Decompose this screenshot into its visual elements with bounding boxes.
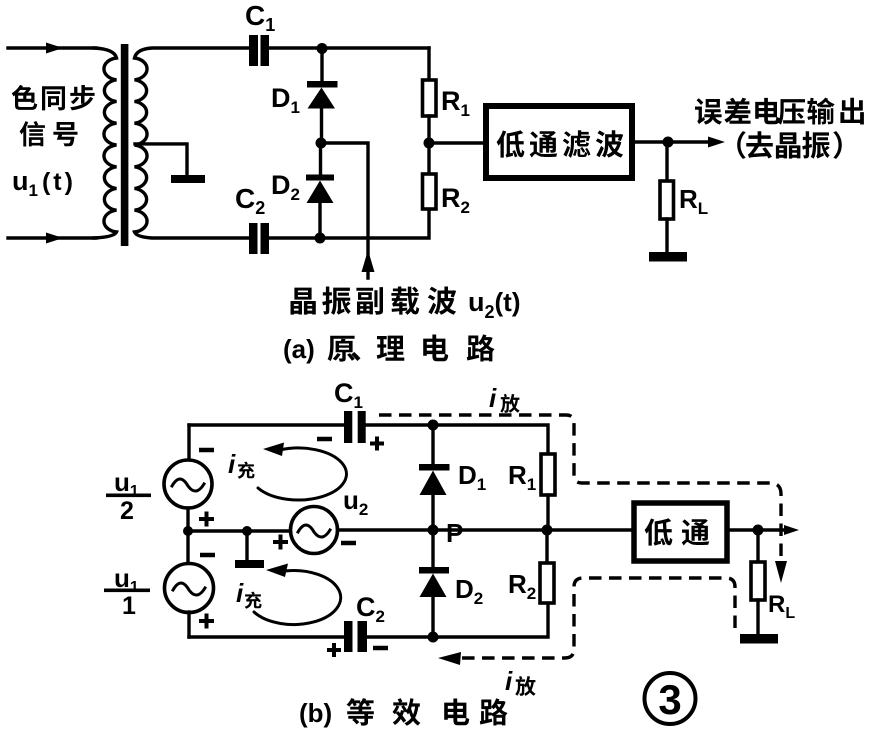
polarity minus top source bbox=[199, 448, 214, 453]
polarity plus u2 left bbox=[273, 535, 288, 550]
diode D1 triangle bbox=[308, 88, 336, 109]
node left mid junction dot bbox=[183, 526, 193, 536]
wire u2 to node P bbox=[338, 528, 434, 531]
wire arrowhead discharge down bbox=[775, 561, 787, 583]
wire dashed discharge path top bbox=[379, 415, 781, 558]
svg-text:i: i bbox=[236, 578, 244, 608]
svg-text:R1: R1 bbox=[508, 460, 536, 494]
wire node B to D2 bbox=[319, 143, 322, 175]
source u1/1 circle bbox=[165, 564, 214, 613]
wire left rail top segment bbox=[187, 425, 190, 460]
svg-text:D1: D1 bbox=[271, 83, 300, 117]
wire R1 to node D bbox=[427, 116, 430, 143]
source u2 sine bbox=[298, 525, 330, 537]
label to crystal bbox=[737, 131, 842, 159]
wire C2b to R2b corner bbox=[367, 603, 548, 637]
svg-text:RL: RL bbox=[679, 184, 708, 218]
diode D1 (b) triangle bbox=[420, 471, 447, 496]
wire lowpass box to output node bbox=[632, 140, 712, 143]
wire input top with arrow bbox=[8, 46, 96, 49]
diode D2 cathode bar bbox=[306, 175, 334, 181]
node output (b) junction dot bbox=[753, 525, 764, 536]
wire box to output node (b) bbox=[727, 528, 786, 531]
transformer T1 secondary winding bbox=[135, 48, 251, 238]
svg-text:C2: C2 bbox=[356, 592, 385, 626]
svg-text:D2: D2 bbox=[455, 574, 483, 608]
capacitor C2 (b) plate right bbox=[358, 621, 368, 652]
wire node B stub to subcarrier injection bbox=[321, 143, 368, 278]
wire arrowhead charge loop bottom bbox=[266, 564, 288, 578]
transformer core bar bbox=[121, 44, 129, 246]
diode D1 cathode bar bbox=[307, 81, 338, 88]
ground center tap bbox=[171, 175, 205, 183]
wire D2 to bottom rail bbox=[318, 203, 321, 238]
resistor RL (b) bbox=[751, 562, 765, 600]
polarity minus C2b right bbox=[373, 646, 388, 651]
wire arrowhead output (a) bbox=[708, 137, 725, 148]
capacitor C1 (b) plate right bbox=[358, 411, 366, 443]
wire center tap bbox=[135, 144, 187, 175]
diode D1 (b) cathode bar bbox=[419, 464, 450, 471]
svg-text:(b): (b) bbox=[299, 698, 332, 728]
svg-text:R2: R2 bbox=[441, 183, 470, 217]
wire D1b to P bbox=[431, 495, 434, 530]
svg-text:u2(t): u2(t) bbox=[468, 287, 521, 322]
svg-text:i: i bbox=[505, 666, 513, 696]
svg-text:D1: D1 bbox=[458, 460, 486, 494]
ground RL (a) bbox=[649, 252, 687, 262]
polarity minus C1b left bbox=[317, 437, 332, 442]
label u1/2 bar bbox=[106, 494, 151, 498]
wire D1 to node B bbox=[320, 108, 323, 143]
wire arrowhead input bottom bbox=[46, 233, 63, 244]
wire C1b to R1b corner bbox=[365, 425, 548, 454]
lowpass box (b) bbox=[634, 503, 727, 561]
capacitor C1 plate right bbox=[261, 35, 270, 66]
node E output junction dot bbox=[663, 137, 674, 148]
svg-text:i: i bbox=[489, 383, 497, 413]
label subcarrier u2(t) bbox=[291, 287, 457, 315]
resistor R1 (b) bbox=[541, 454, 555, 495]
wire D2b to bottom rail bbox=[431, 597, 434, 637]
charge current loop bottom bbox=[254, 571, 341, 625]
svg-text:RL: RL bbox=[768, 591, 795, 622]
wire node D to R2 bbox=[427, 143, 430, 174]
source u1/2 circle bbox=[164, 460, 212, 508]
svg-text:P: P bbox=[446, 518, 463, 548]
label lowpass filter text (a) bbox=[497, 130, 624, 158]
svg-text:3: 3 bbox=[658, 676, 681, 723]
polarity minus bottom source bbox=[200, 553, 215, 558]
wire between source and mid node bbox=[186, 508, 189, 531]
svg-text:u2: u2 bbox=[343, 485, 368, 519]
label lowpass text (b) bbox=[645, 518, 710, 546]
node top of diode branch junction dot bbox=[428, 420, 439, 431]
wire RL to ground bbox=[665, 219, 668, 252]
wire P to R1R2 junction bbox=[433, 528, 541, 531]
wire dashed discharge path bottom bbox=[458, 578, 735, 658]
wire mid node to lower source bbox=[186, 531, 189, 564]
svg-text:i: i bbox=[228, 449, 236, 479]
ground RL (b) bbox=[740, 634, 778, 644]
polarity plus C1b right bbox=[370, 437, 384, 451]
source u2 circle bbox=[291, 507, 338, 554]
resistor R2 bbox=[423, 174, 437, 209]
diode D2 (b) triangle bbox=[420, 574, 447, 598]
svg-text:C1: C1 bbox=[334, 378, 363, 412]
svg-text:1: 1 bbox=[122, 592, 136, 620]
svg-text:(a): (a) bbox=[283, 334, 315, 364]
node bottom of diode branch junction dot bbox=[428, 632, 439, 643]
lowpass filter box (a) bbox=[486, 106, 632, 178]
wire top rail left to C1b bbox=[189, 423, 345, 426]
wire diode branch top bbox=[431, 425, 434, 464]
resistor R1 bbox=[423, 80, 437, 116]
polarity plus C2b left bbox=[327, 643, 341, 657]
wire ground stub bbox=[245, 531, 248, 560]
resistor RL (a) bbox=[660, 181, 674, 219]
wire bottom rail C2 to R2 column bbox=[269, 209, 429, 238]
wire arrowhead output (b) bbox=[784, 525, 799, 535]
polarity plus bottom source bbox=[199, 614, 214, 629]
source u1/2 sine bbox=[172, 479, 204, 491]
wire R1R2 junction to lowpass box bbox=[547, 528, 634, 531]
node P junction dot bbox=[428, 525, 439, 536]
charge current loop top bbox=[258, 448, 346, 500]
figure number circle 3 bbox=[645, 673, 696, 724]
ground stub bar (b) bbox=[235, 560, 264, 568]
wire input bottom with arrow bbox=[8, 236, 96, 239]
wire R1b to mid junction bbox=[546, 495, 549, 530]
label u1/1 bar bbox=[104, 589, 150, 593]
capacitor C2 (b) plate left bbox=[344, 621, 353, 652]
svg-text:R2: R2 bbox=[508, 569, 536, 603]
capacitor C1 (b) plate left bbox=[344, 411, 352, 443]
wire arrowhead subcarrier up bbox=[362, 250, 375, 272]
wire mid junction to R2b bbox=[545, 530, 548, 563]
source u1/1 sine bbox=[173, 583, 205, 595]
label input 色同步 bbox=[12, 85, 95, 111]
svg-text:C2: C2 bbox=[235, 183, 265, 218]
wire bottom rail left to C2b bbox=[189, 635, 344, 638]
wire arrowhead discharge left bbox=[438, 652, 461, 665]
wire output node to RLb bbox=[756, 530, 759, 562]
svg-text:2: 2 bbox=[120, 497, 134, 525]
resistor R2 (b) bbox=[540, 563, 554, 603]
diode D2 (b) cathode bar bbox=[419, 567, 449, 574]
polarity plus top source bbox=[199, 512, 214, 527]
svg-text:D2: D2 bbox=[271, 170, 300, 204]
node R1R2 junction dot bbox=[542, 525, 553, 536]
capacitor C2 plate right bbox=[261, 223, 270, 254]
node A junction dot bbox=[317, 43, 328, 54]
node ground stub junction dot bbox=[242, 526, 252, 536]
wire arrowhead charge loop top bbox=[263, 443, 284, 457]
wire top rail to R1 bbox=[427, 48, 430, 80]
node B junction dot bbox=[316, 138, 327, 149]
node C junction dot bbox=[315, 233, 326, 244]
transformer T1 primary winding bbox=[94, 48, 117, 238]
wire RLb to ground bbox=[756, 600, 759, 634]
wire mid rail left bbox=[188, 529, 291, 532]
svg-text:R1: R1 bbox=[441, 86, 470, 120]
polarity minus u2 right bbox=[341, 541, 356, 546]
capacitor C1 plate left bbox=[249, 35, 258, 66]
wire lower source to bottom rail bbox=[187, 612, 190, 637]
label input 信号 bbox=[20, 121, 78, 147]
svg-text:u1(t): u1(t) bbox=[12, 166, 76, 200]
wire node D to lowpass box bbox=[429, 141, 486, 144]
label error voltage output bbox=[695, 98, 864, 125]
svg-text:C1: C1 bbox=[245, 0, 275, 35]
node D junction dot bbox=[424, 138, 435, 149]
wire P to D2b bbox=[431, 530, 434, 567]
wire node A down to D1 bbox=[320, 48, 323, 81]
wire output node to RL bbox=[665, 142, 668, 181]
capacitor C2 plate left bbox=[249, 223, 258, 254]
diode D2 triangle bbox=[307, 181, 334, 204]
wire arrowhead input top bbox=[46, 43, 63, 54]
wire C1 to node A bbox=[269, 46, 429, 49]
